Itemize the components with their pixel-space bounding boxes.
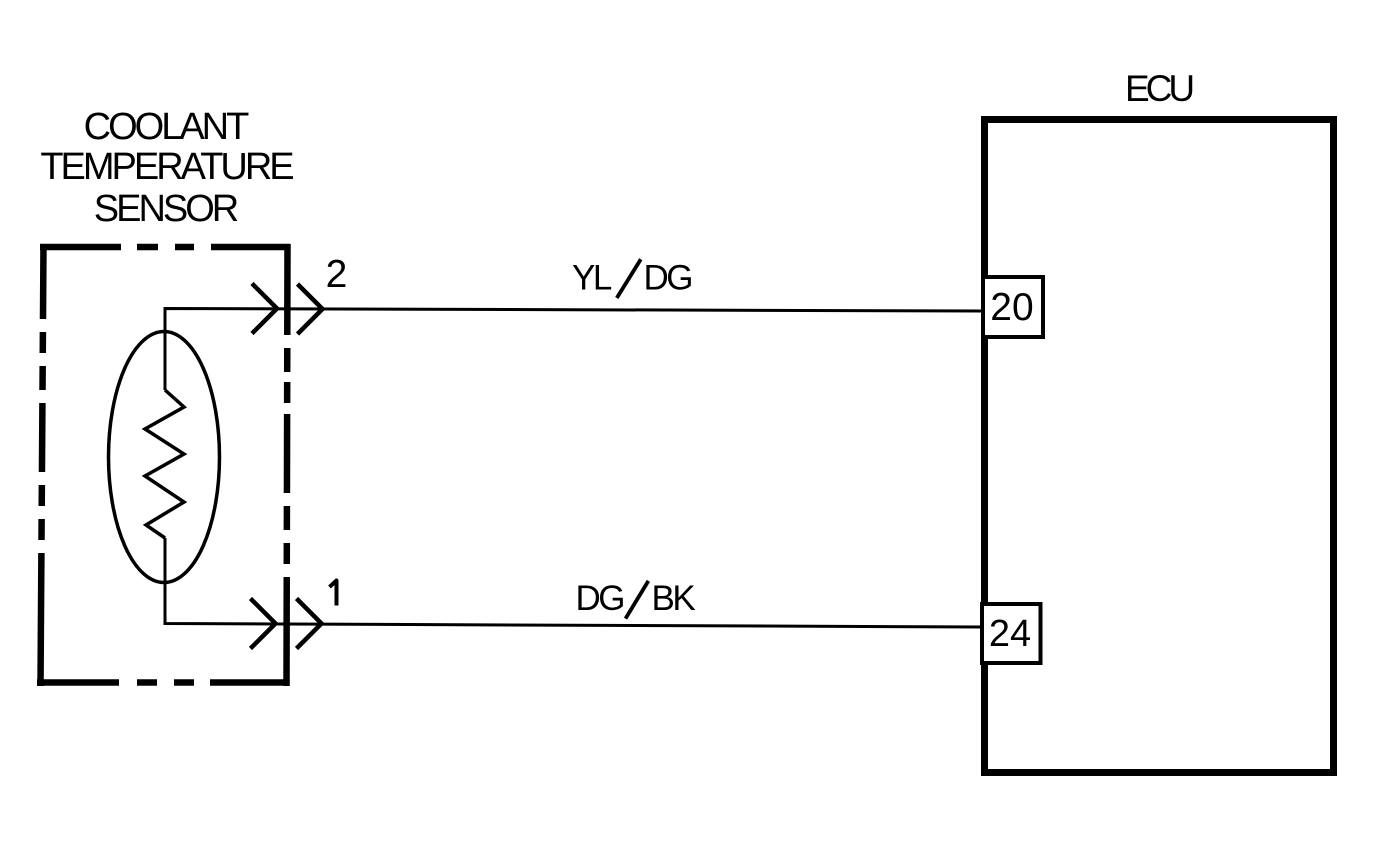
pin box 24 — [982, 604, 1041, 663]
sensor dashed box bottom edge — [37, 679, 289, 686]
svg-text:SENSOR: SENSOR — [94, 188, 238, 230]
wire label YL/DG — [572, 259, 691, 299]
svg-text:DG: DG — [576, 579, 624, 618]
wire YL/DG (pin2 to pin20) — [165, 309, 983, 391]
svg-text:BK: BK — [652, 579, 696, 618]
connector chevron B (wire2 outer) — [298, 284, 323, 334]
label COOLANT TEMPERATURE SENSOR — [40, 106, 293, 230]
svg-text:DG: DG — [644, 259, 692, 298]
pin label 1 — [330, 581, 337, 606]
sensor dashed box top edge — [40, 244, 290, 251]
svg-text:ECU: ECU — [1125, 68, 1192, 109]
wire label DG/BK — [576, 579, 696, 619]
sensor dashed box left edge — [41, 244, 44, 686]
svg-text:2: 2 — [326, 253, 348, 296]
ECU box — [985, 120, 1334, 773]
thermistor ellipse — [109, 332, 220, 583]
svg-text:TEMPERATURE: TEMPERATURE — [40, 146, 293, 188]
svg-text:YL: YL — [572, 259, 612, 298]
svg-text:COOLANT: COOLANT — [84, 106, 249, 148]
resistor zigzag — [145, 390, 184, 538]
svg-text:24: 24 — [989, 613, 1031, 655]
svg-text:20: 20 — [990, 286, 1033, 329]
connector chevron A (wire2 inner) — [252, 284, 277, 334]
sensor dashed box right edge — [287, 244, 288, 686]
connector chevron C (wire1 inner) — [251, 599, 276, 649]
wire DG/BK (pin1 to pin24) — [165, 538, 983, 627]
pin box 20 — [983, 277, 1043, 337]
connector chevron D (wire1 outer) — [297, 599, 322, 649]
